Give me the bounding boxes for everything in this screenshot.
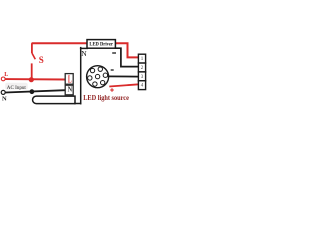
- svg-text:L: L: [4, 72, 8, 78]
- svg-text:N: N: [68, 85, 73, 94]
- svg-text:LED light source: LED light source: [83, 94, 129, 102]
- svg-text:LED Driver: LED Driver: [89, 42, 113, 48]
- svg-text:N: N: [2, 96, 7, 103]
- svg-text:AC Input: AC Input: [7, 85, 26, 91]
- svg-text:N: N: [81, 49, 87, 58]
- svg-text:S: S: [39, 55, 44, 65]
